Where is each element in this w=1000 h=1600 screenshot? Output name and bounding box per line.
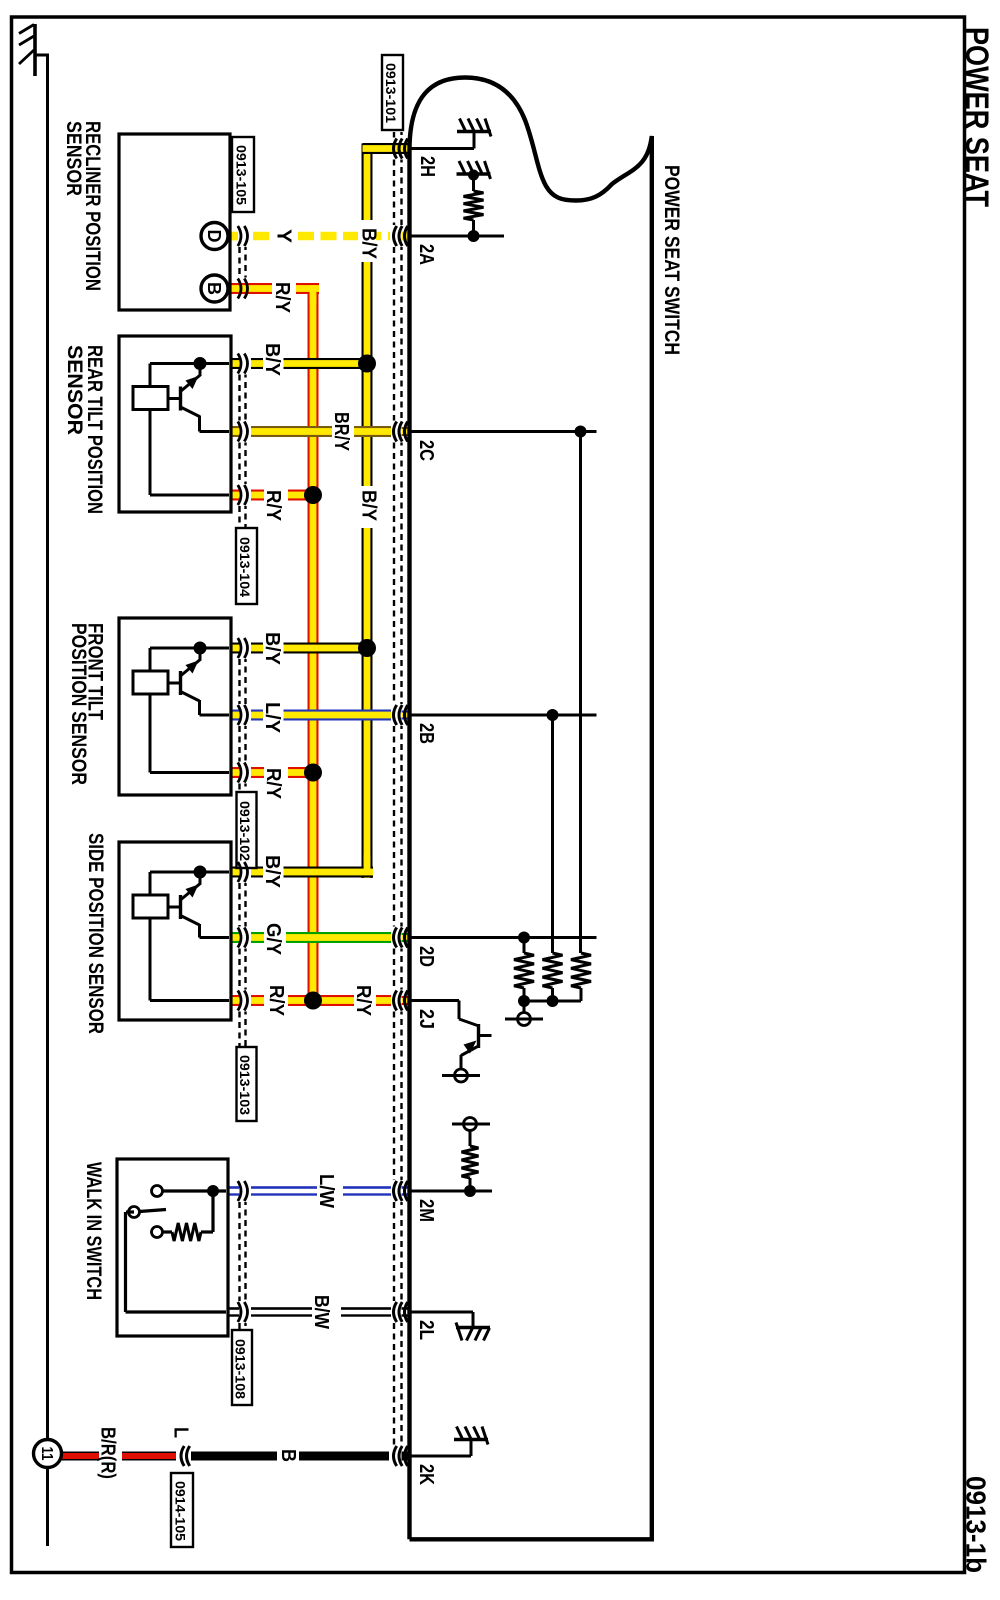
svg-text:2C: 2C (415, 440, 437, 461)
connector label box 0913-103 (237, 1047, 257, 1121)
pin 2K (408, 1455, 471, 1458)
wire left ground rail (46, 54, 49, 1441)
svg-text:0913-103: 0913-103 (237, 1055, 253, 1115)
connector label box 0913-108 (232, 1330, 252, 1405)
junction dot (194, 357, 207, 370)
side position sensor box (119, 842, 231, 1020)
resistor R2 (2B) (543, 953, 563, 988)
wire Y from recliner D (229, 232, 238, 241)
junction B/Y rear tilt (358, 355, 376, 373)
walk in switch resistor (172, 1223, 201, 1241)
svg-text:SENSOR: SENSOR (62, 121, 85, 196)
wire to lower pin (149, 918, 152, 1001)
wire B/Y front tilt to bus (230, 643, 239, 654)
wire 2B branch down (551, 715, 554, 953)
in-line connector 11 (34, 1440, 62, 1468)
svg-text:L/Y: L/Y (261, 702, 283, 734)
wire L/W walk in switch to pin 2M (228, 1186, 239, 1196)
recliner position sensor box (119, 134, 230, 310)
svg-text:B/Y: B/Y (261, 632, 283, 666)
resistor at 2M (469, 1178, 472, 1191)
ground at 2A (457, 172, 491, 175)
svg-text:B: B (204, 282, 224, 295)
junction dot walk in (207, 1185, 219, 1197)
svg-text:G/Y: G/Y (262, 923, 284, 956)
connector 0913-108 (walk in switch) (238, 1202, 240, 1301)
wire sensor collector rail (150, 871, 229, 874)
wire sensor collector rail (150, 362, 229, 365)
connector 11 to harness chevrons (181, 1446, 184, 1466)
connector 0913-103 (side position) (238, 883, 240, 927)
terminal B (201, 275, 228, 302)
svg-text:Y: Y (273, 229, 295, 244)
svg-text:0913-1b: 0913-1b (961, 1476, 992, 1573)
wire resistor commons (524, 1000, 581, 1003)
svg-text:B/Y: B/Y (358, 490, 380, 522)
pin 2D (408, 936, 597, 939)
walk in resistor contact (152, 1227, 163, 1238)
svg-text:0913-108: 0913-108 (232, 1339, 248, 1399)
pin 2A (408, 235, 504, 238)
wire L/Y front tilt to pin 2B (230, 710, 239, 721)
connector label box 0913-105 (232, 137, 254, 212)
label Y (275, 227, 295, 245)
connector 0913-101 chevrons (394, 139, 397, 159)
wire B/Y rear tilt to bus (230, 358, 239, 369)
wire B/Y vertical bus (362, 144, 373, 221)
connector 0913-102 (front tilt) (238, 659, 240, 704)
rear tilt position sensor box (119, 336, 231, 512)
pin 2C (408, 430, 597, 433)
junction dot (194, 866, 207, 879)
wire to middle pin (200, 430, 230, 433)
svg-text:B/Y: B/Y (358, 228, 380, 260)
svg-text:2D: 2D (415, 946, 437, 967)
junction dot (194, 642, 207, 655)
svg-text:2B: 2B (415, 723, 437, 744)
resistor R3 (2C) (571, 953, 591, 988)
pin 2H (408, 147, 474, 150)
svg-text:D: D (204, 230, 224, 243)
ground at 2L (456, 1326, 490, 1329)
svg-text:R/Y: R/Y (271, 282, 293, 314)
wire R/Y rear tilt to bus (230, 490, 239, 501)
svg-text:2K: 2K (415, 1464, 437, 1485)
svg-text:SENSOR: SENSOR (63, 345, 86, 435)
svg-text:11: 11 (38, 1447, 55, 1461)
svg-text:0913-102: 0913-102 (237, 801, 253, 861)
wire B/Y bus top corner to pin 2H (363, 143, 408, 154)
svg-text:POSITION SENSOR: POSITION SENSOR (67, 623, 90, 785)
wire R/Y recliner B to bus corner (229, 283, 272, 294)
svg-text:R/Y: R/Y (265, 985, 287, 1017)
svg-text:0914-105: 0914-105 (172, 1481, 188, 1541)
wire junction down to resistor (211, 1191, 214, 1232)
svg-text:R/Y: R/Y (262, 768, 284, 800)
junction R/Y side position (304, 992, 322, 1010)
svg-text:R/Y: R/Y (352, 985, 374, 1017)
connector label box 0914-105 (171, 1473, 193, 1547)
wire movable contact to pin B/W (126, 1210, 134, 1213)
wire 2C branch down (579, 432, 582, 954)
connector 0913-101 dashed line left (393, 132, 395, 138)
connector 0913-105 (recliner) (238, 247, 240, 278)
pin 2J (408, 999, 459, 1002)
svg-text:L: L (170, 1427, 192, 1438)
svg-text:BR/Y: BR/Y (330, 412, 352, 452)
wire B to pin 2K (191, 1452, 277, 1461)
svg-text:POWER SEAT: POWER SEAT (959, 27, 995, 207)
svg-text:B/W: B/W (310, 1295, 332, 1329)
wire to lower pin (149, 410, 152, 496)
wire BR/Y rear tilt to pin 2C (230, 426, 239, 437)
svg-text:2M: 2M (415, 1199, 437, 1222)
svg-text:0913-105: 0913-105 (233, 145, 249, 205)
svg-text:2H: 2H (416, 156, 438, 177)
wire to lower pin (149, 694, 152, 773)
switch lever (140, 1210, 167, 1212)
wire B/Y side position to bus corner (230, 867, 239, 878)
connector label box 0913-101 (382, 55, 403, 130)
wire to middle pin (200, 936, 230, 939)
junction R/Y rear tilt (304, 486, 322, 504)
chassis ground G (top left) (33, 24, 37, 76)
svg-text:SIDE POSITION SENSOR: SIDE POSITION SENSOR (84, 833, 107, 1034)
svg-text:2L: 2L (415, 1320, 437, 1340)
svg-text:0913-104: 0913-104 (237, 537, 253, 597)
svg-text:WALK IN SWITCH: WALK IN SWITCH (82, 1162, 105, 1300)
connector label box 0913-102 (237, 792, 257, 868)
wire G/Y side position to pin 2D (230, 932, 239, 943)
wire ground to left rail (34, 54, 48, 57)
wiper terminal (523, 1001, 526, 1013)
svg-text:L/W: L/W (315, 1174, 337, 1208)
connector 0913-104 (rear tilt) (238, 375, 240, 421)
wire B/W walk in switch to pin 2L (228, 1307, 239, 1317)
wire sensor collector rail (150, 647, 229, 650)
terminal D (201, 223, 228, 250)
svg-text:B/Y: B/Y (261, 343, 283, 377)
junction B/Y front tilt (358, 639, 376, 657)
sensor body (133, 671, 168, 694)
front tilt position sensor box (119, 618, 231, 795)
pin 2M (408, 1190, 492, 1193)
walk in switch box (117, 1159, 228, 1336)
phototransistor (199, 648, 202, 660)
ground at 2H (457, 130, 491, 133)
pin 2B (408, 714, 597, 717)
power seat switch outline (410, 78, 652, 1540)
svg-text:2J: 2J (415, 1009, 437, 1029)
walk in switch movable contact (129, 1207, 140, 1218)
wire R/Y vertical bus (308, 284, 319, 1001)
wire contact to pin L/W (163, 1189, 227, 1192)
resistor R1 (2D) (514, 953, 534, 988)
phototransistor (199, 872, 202, 884)
wire R/Y front tilt to bus (230, 767, 239, 778)
wire B/R(R) from connector 11 (60, 1452, 99, 1461)
phototransistor (199, 364, 202, 376)
connector label box 0913-104 (236, 528, 257, 604)
svg-text:B: B (277, 1449, 299, 1462)
sensor body (133, 895, 168, 918)
resistor 2A (464, 191, 484, 220)
junction 2A resistor (468, 230, 480, 242)
transistor Q1 in switch (477, 1024, 480, 1048)
svg-text:0913-101: 0913-101 (383, 63, 399, 123)
pin 2L (408, 1311, 473, 1314)
wire to middle pin (200, 714, 230, 717)
svg-text:R/Y: R/Y (262, 490, 284, 522)
sensor body (133, 387, 168, 410)
connector 0913-101 dashed line right (400, 132, 402, 138)
junction R/Y front tilt (304, 764, 322, 782)
svg-text:POWER SEAT SWITCH: POWER SEAT SWITCH (660, 165, 683, 355)
svg-text:2A: 2A (415, 244, 437, 265)
label B/Y on bus upper (358, 221, 376, 261)
ground at 2K (454, 1438, 488, 1441)
label B/Y on bus lower (358, 487, 376, 527)
walk in switch fixed contact (152, 1186, 163, 1197)
svg-text:B/R(R): B/R(R) (97, 1427, 119, 1479)
wire R/Y side position to pin 2J (230, 995, 239, 1006)
svg-text:B/Y: B/Y (261, 855, 283, 889)
